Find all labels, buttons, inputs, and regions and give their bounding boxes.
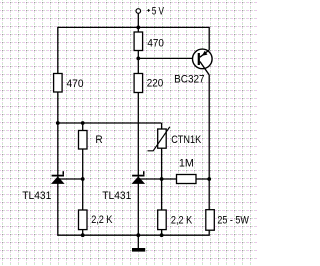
svg-text:1M: 1M <box>179 157 194 169</box>
svg-text:TL431: TL431 <box>102 190 131 202</box>
svg-text:2,2 K: 2,2 K <box>171 214 193 226</box>
svg-text:470: 470 <box>147 38 164 50</box>
svg-text:25 - 5W: 25 - 5W <box>217 215 249 227</box>
svg-text:5 V: 5 V <box>152 6 165 18</box>
svg-text:470: 470 <box>67 78 84 90</box>
svg-text:2,2 K: 2,2 K <box>91 214 113 226</box>
svg-text:BC327: BC327 <box>174 73 205 85</box>
svg-text:220: 220 <box>147 78 164 90</box>
svg-text:TL431: TL431 <box>22 190 51 202</box>
svg-text:CTN1K: CTN1K <box>171 134 202 146</box>
svg-text:R: R <box>95 134 102 146</box>
